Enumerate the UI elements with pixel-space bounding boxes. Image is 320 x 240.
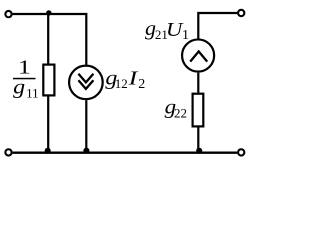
- svg-text:g: g: [13, 77, 25, 98]
- svg-text:11: 11: [26, 85, 39, 100]
- svg-text:12: 12: [115, 76, 128, 91]
- svg-text:22: 22: [174, 106, 187, 121]
- svg-text:2: 2: [138, 77, 145, 92]
- svg-text:1: 1: [18, 58, 31, 79]
- svg-text:1: 1: [182, 28, 189, 43]
